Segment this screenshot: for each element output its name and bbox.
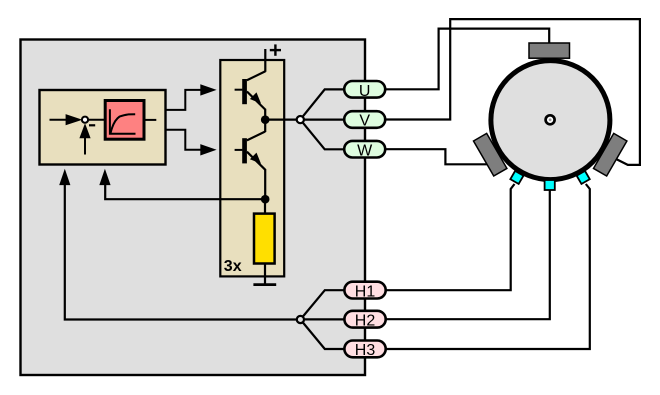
stator shoe lower-right [593, 133, 626, 176]
transistor Q2 collector [247, 132, 265, 141]
svg-text:V: V [359, 113, 370, 130]
svg-text:H1: H1 [355, 283, 376, 300]
transistor Q1 base bar [242, 79, 247, 104]
wire summing point to limiter [88, 119, 104, 121]
transistor Q2 emitter [247, 152, 265, 170]
arrow feedback into summing point [79, 123, 90, 138]
wire H2 to hall sensor 2 [345, 190, 550, 319]
arrow lower drive into power stage [200, 144, 216, 155]
hall sensor 1 [510, 171, 523, 184]
hall sensor 2 [545, 180, 555, 190]
resistor R1 shunt [254, 214, 275, 264]
terminal V [344, 111, 385, 128]
wire H3 to hall sensor 3 [345, 184, 590, 349]
wire limiter output stub [146, 119, 157, 121]
junction sense node [261, 195, 270, 204]
transistor Q1 emitter [247, 92, 265, 110]
wire output node to phase node [265, 118, 345, 120]
transistor Q1 base wire [235, 89, 243, 91]
junction output node [261, 115, 270, 124]
power supply + symbol [270, 49, 281, 51]
wire Q2 emitter to sense node [264, 169, 266, 199]
wire W to motor left shoe [385, 149, 487, 164]
node phase splitter [297, 116, 304, 123]
wire setpoint input [50, 119, 67, 121]
wire H1 to hall sensor 1 [345, 184, 515, 290]
arrow hall feedback into controller [59, 169, 70, 185]
hall sensor 3 [577, 171, 590, 184]
wire V to motor right shoe [385, 19, 640, 165]
wire shunt resistor top lead [264, 199, 266, 214]
svg-text:H2: H2 [355, 312, 376, 329]
arrow upper drive into power stage [200, 84, 216, 95]
svg-text:W: W [357, 142, 373, 159]
wire Q2 collector to output node [264, 120, 266, 132]
limiter graph axes [110, 109, 136, 133]
wire upper drive line [166, 90, 201, 110]
terminal H1 [344, 282, 385, 299]
arrow setpoint into summing point [66, 114, 83, 125]
terminal H2 [344, 311, 385, 328]
controller block U10 (regulator) [40, 90, 166, 165]
minus label at summing point [89, 124, 95, 126]
node hall splitter [297, 316, 304, 323]
transistor Q1 emitter arrow [250, 92, 261, 103]
wire hall node to H3 [300, 320, 345, 350]
stator shoe lower-left [473, 133, 506, 176]
wire Q1 emitter to output node [264, 109, 266, 120]
wire phase node to W [300, 120, 345, 150]
terminal H3 [344, 341, 385, 358]
transistor Q2 emitter arrow [250, 153, 261, 164]
transistor Q1 collector [247, 71, 266, 80]
wire shunt resistor bottom lead [264, 264, 266, 285]
motor shaft center [546, 115, 555, 124]
ground bar [253, 283, 276, 286]
wire U to motor top shoe [385, 29, 549, 90]
controller enclosure box [21, 40, 366, 376]
wire hall node to H1 [300, 290, 345, 319]
transistor Q2 base bar [242, 138, 247, 163]
wire hall feedback [65, 185, 297, 320]
power stage block (3x) [220, 60, 284, 276]
transistor Q2 base wire [235, 149, 243, 151]
terminal W [344, 141, 385, 158]
limiter block U11 [105, 101, 144, 140]
motor M1 rotor body [491, 61, 610, 180]
svg-text:3x: 3x [224, 258, 242, 275]
svg-text:U: U [359, 83, 371, 100]
wire lower drive line [166, 130, 201, 150]
wire current feedback [105, 185, 265, 200]
svg-text:H3: H3 [355, 342, 376, 359]
stator shoe top [529, 43, 570, 58]
summing point S1 [82, 117, 88, 123]
arrow current feedback into controller [99, 169, 110, 185]
limiter saturation curve [110, 114, 135, 133]
wire hall node to H2 [300, 318, 345, 320]
wire phase node to U [300, 89, 345, 119]
wire supply rail [264, 49, 266, 72]
wire feedback stub below summing point [84, 138, 86, 155]
terminal U [344, 81, 385, 98]
